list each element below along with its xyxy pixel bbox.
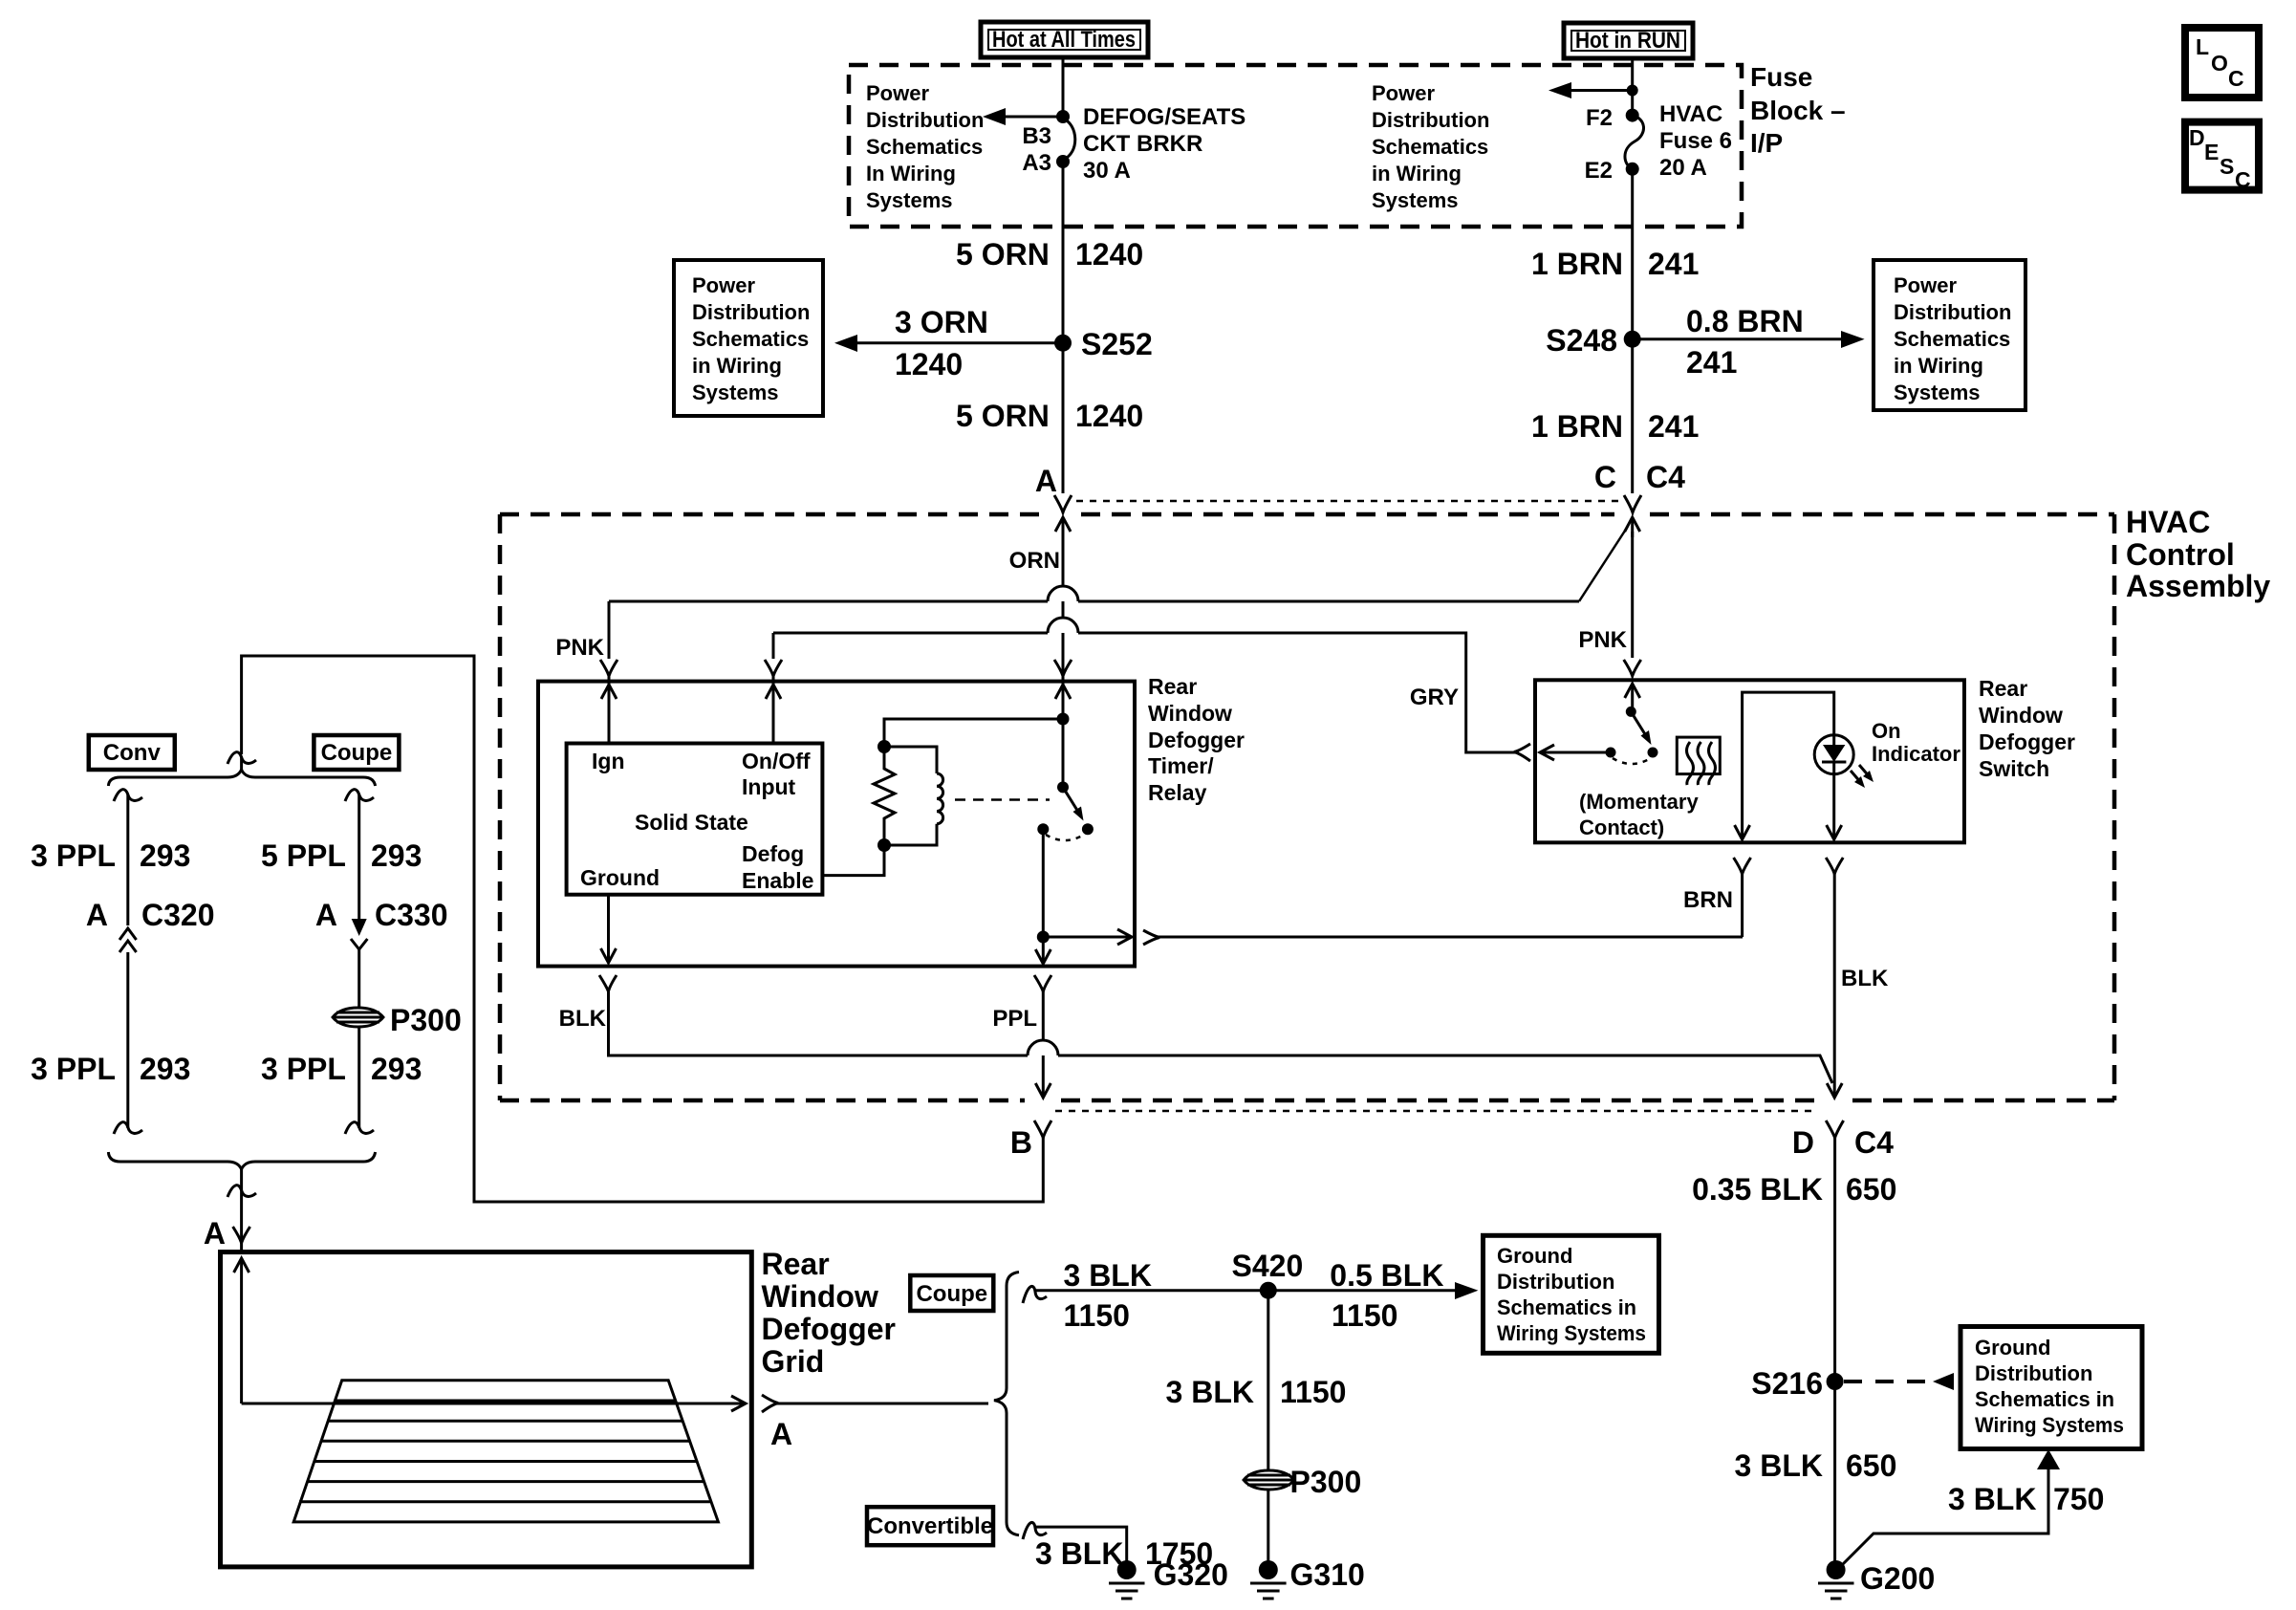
HVAC control assembly label: [2126, 505, 2270, 603]
switch connector chevron (BLK): [1826, 858, 1843, 874]
wire down to HVAC connector C: [1631, 339, 1634, 493]
svg-text:D: D: [1792, 1125, 1814, 1160]
svg-text:Distribution: Distribution: [866, 108, 984, 132]
relay switch arm: [1063, 787, 1084, 820]
box ground distribution schematics (S216): [1960, 1327, 2142, 1449]
wire from relay contact down: [1037, 829, 1050, 943]
wire LED to box bottom: [1832, 774, 1835, 838]
svg-text:Defogger: Defogger: [1148, 728, 1245, 752]
labels 3 BLK 1750: [1035, 1536, 1213, 1571]
svg-text:Window: Window: [1979, 703, 2063, 728]
labels 3 BLK 1150: [1064, 1258, 1152, 1333]
wire ORN down from A: [1062, 532, 1065, 717]
svg-text:Solid State: Solid State: [635, 810, 748, 835]
svg-text:O: O: [2211, 51, 2228, 76]
wire GRY horizontal (On/Off) with hop over ORN: [773, 618, 1519, 752]
relay actuation dashed link: [955, 798, 1050, 801]
wire 3 BLK 1750 to G320: [1035, 1527, 1127, 1562]
switch connector chevron (GRY): [1514, 744, 1530, 761]
brace (right-opening, coupe/convertible): [994, 1273, 1019, 1535]
svg-text:P300: P300: [1290, 1465, 1362, 1499]
grid label: [762, 1247, 896, 1379]
switch arm with arrow: [1631, 711, 1651, 745]
HVAC control assembly dashed box: [500, 512, 1045, 517]
grid box: [221, 1252, 752, 1567]
svg-text:in Wiring: in Wiring: [692, 354, 782, 378]
text power distribution (left, in fuse block): [866, 81, 984, 212]
svg-text:L: L: [2196, 34, 2209, 59]
LED light rays: [1851, 765, 1874, 788]
svg-text:Convertible: Convertible: [867, 1513, 993, 1539]
arrow PNK into switch box: [1625, 684, 1640, 711]
svg-text:A: A: [315, 898, 337, 932]
svg-text:On: On: [1872, 719, 1901, 743]
svg-text:D: D: [2189, 125, 2205, 150]
svg-text:Rear: Rear: [1979, 676, 2027, 701]
wire conv branch lower: [126, 952, 129, 1128]
svg-text:Ground: Ground: [1975, 1336, 2050, 1360]
svg-text:Indicator: Indicator: [1872, 742, 1960, 766]
svg-text:PNK: PNK: [1578, 627, 1627, 653]
svg-text:241: 241: [1686, 345, 1737, 380]
svg-text:BLK: BLK: [559, 1006, 607, 1032]
svg-text:Distribution: Distribution: [1497, 1270, 1614, 1294]
wire coupe branch lower: [357, 1027, 360, 1128]
svg-text:Hot at All Times: Hot at All Times: [992, 27, 1136, 53]
fuse block I/P dashed box: [849, 65, 1742, 227]
wire On/Off into box: [772, 633, 775, 743]
wire grid output to brace: [776, 1403, 988, 1405]
svg-text:293: 293: [140, 1052, 190, 1086]
svg-text:Distribution: Distribution: [1372, 108, 1489, 132]
wire ORN to relay junction: [1062, 672, 1065, 719]
svg-text:Fuse: Fuse: [1750, 62, 1812, 92]
svg-text:Conv: Conv: [103, 740, 162, 766]
switch contacts: [1606, 748, 1616, 758]
svg-text:Assembly: Assembly: [2126, 569, 2270, 603]
svg-text:G320: G320: [1154, 1557, 1228, 1592]
svg-text:0.8 BRN: 0.8 BRN: [1686, 304, 1804, 338]
box power distribution schematics (left): [674, 260, 823, 416]
switch connector chevron (BRN): [1734, 858, 1751, 874]
svg-text:G310: G310: [1290, 1557, 1365, 1592]
wire: battery feed down from Hot at All Times: [1062, 57, 1065, 117]
label (Momentary Contact): [1579, 790, 1699, 839]
arrow On/Off (into timer box): [766, 685, 781, 699]
svg-text:E: E: [2204, 140, 2219, 164]
svg-text:3 PPL: 3 PPL: [31, 838, 116, 873]
svg-text:Coupe: Coupe: [321, 740, 393, 766]
svg-text:Schematics: Schematics: [1894, 327, 2010, 351]
coupe ground branch squiggle: [1023, 1286, 1047, 1303]
text power distribution (right, in fuse block): [1372, 81, 1489, 212]
LED on indicator: [1814, 735, 1853, 774]
svg-text:S248: S248: [1546, 323, 1617, 358]
svg-text:1240: 1240: [1075, 399, 1143, 433]
wire PPL down to connector B: [1035, 991, 1051, 1098]
switch label: [1979, 676, 2075, 781]
svg-text:PNK: PNK: [555, 635, 604, 661]
connector C4 fine dashed line (bottom, B to D): [1055, 1110, 1814, 1113]
svg-text:C4: C4: [1646, 460, 1685, 494]
grid element trapezoid: [293, 1381, 718, 1522]
svg-text:C: C: [2235, 167, 2251, 192]
svg-text:241: 241: [1648, 247, 1699, 281]
svg-text:Hot in RUN: Hot in RUN: [1575, 28, 1680, 54]
svg-text:On/Off: On/Off: [742, 749, 811, 773]
svg-text:Coupe: Coupe: [916, 1281, 987, 1307]
connector C320 (double chevron): [86, 898, 215, 952]
connector C4 fine dashed line (top, A to C): [1076, 500, 1619, 503]
wire ground from solid state down: [601, 895, 617, 963]
wire below brace: [240, 1169, 243, 1251]
relay switch pivot: [1057, 719, 1069, 793]
wire BLK from switch down to D: [1827, 872, 1842, 1098]
wire BRN down and left: [1741, 874, 1744, 937]
svg-text:Power: Power: [1894, 273, 1957, 297]
arrow BLK down inside switch box: [1827, 825, 1842, 839]
wire 1 BRN 241 segment: [1531, 247, 1699, 281]
connector C arrow (into HVAC): [1625, 517, 1640, 537]
svg-text:Window: Window: [1148, 701, 1232, 726]
svg-text:Schematics: Schematics: [1372, 135, 1488, 159]
splice S420: [1232, 1249, 1304, 1299]
svg-text:Schematics: Schematics: [692, 327, 809, 351]
svg-text:5 PPL: 5 PPL: [261, 838, 346, 873]
svg-text:in Wiring: in Wiring: [1372, 162, 1462, 185]
switch connector chevron (PNK): [1624, 660, 1641, 676]
svg-text:Ign: Ign: [592, 749, 625, 773]
svg-text:Distribution: Distribution: [1894, 300, 2011, 324]
svg-text:C: C: [2228, 66, 2244, 91]
svg-text:3 BLK: 3 BLK: [1735, 1448, 1823, 1483]
fuse HVAC Fuse 6 20A: [1625, 109, 1644, 176]
svg-text:5 ORN: 5 ORN: [956, 237, 1050, 272]
relay contacts: [1037, 823, 1049, 835]
svg-text:Rear: Rear: [762, 1247, 830, 1281]
svg-text:Wiring Systems: Wiring Systems: [1975, 1413, 2124, 1437]
svg-text:0.35 BLK: 0.35 BLK: [1692, 1172, 1823, 1207]
labels 3 PPL 293 (coupe lower): [261, 1052, 422, 1086]
svg-text:Contact): Contact): [1579, 816, 1664, 839]
svg-text:Distribution: Distribution: [1975, 1361, 2092, 1385]
splice S252 arrow 3 ORN 1240: [834, 305, 1063, 381]
coupe branch squiggle: [345, 790, 374, 801]
svg-text:BRN: BRN: [1683, 887, 1733, 913]
svg-text:Enable: Enable: [742, 868, 813, 893]
svg-text:3 PPL: 3 PPL: [261, 1052, 346, 1086]
svg-text:Power: Power: [692, 273, 755, 297]
svg-text:Defog: Defog: [742, 841, 804, 866]
wire PNK horizontal (Ign feed) with hop over ORN: [609, 528, 1627, 601]
arrow Ign (into timer box): [601, 685, 617, 699]
circuit breaker DEFOG/SEATS CKT BRKR 30A: [1056, 110, 1075, 168]
wire relay output to right (BRN): [1043, 929, 1743, 945]
label box Conv: [89, 735, 175, 770]
brace (top, branches to Conv and Coupe): [108, 770, 375, 786]
wire from common contact to GRY (arrow out left): [1540, 745, 1611, 760]
label On Indicator: [1872, 719, 1960, 766]
label box Convertible: [867, 1507, 993, 1545]
svg-text:G200: G200: [1860, 1561, 1935, 1596]
svg-text:Systems: Systems: [1372, 188, 1459, 212]
svg-text:Distribution: Distribution: [692, 300, 810, 324]
svg-text:5 ORN: 5 ORN: [956, 399, 1050, 433]
label 5 ORN 1240 (upper): [956, 237, 1143, 272]
svg-text:3 PPL: 3 PPL: [31, 1052, 116, 1086]
svg-text:P300: P300: [390, 1003, 462, 1037]
wire coupe branch upper: [357, 794, 360, 923]
wire PPL down from contact junction: [1035, 937, 1051, 964]
svg-text:1 BRN: 1 BRN: [1531, 409, 1623, 444]
brace (bottom, joins branches): [108, 1152, 375, 1169]
ground G310: [1250, 1557, 1365, 1599]
svg-text:ORN: ORN: [1009, 548, 1060, 574]
svg-text:S420: S420: [1232, 1249, 1304, 1283]
svg-text:Schematics in: Schematics in: [1497, 1295, 1636, 1319]
label 1 BRN 241 (lower): [1531, 409, 1699, 444]
wire 5 ORN 1240 segment: [1062, 162, 1065, 343]
connector B chevron: [1034, 1120, 1051, 1138]
relay feed wire (top horizontal): [884, 713, 1070, 748]
svg-text:Systems: Systems: [692, 381, 779, 404]
inline splice squiggle (grid feed): [227, 752, 256, 764]
fuse block label: [1750, 62, 1846, 158]
svg-text:3 BLK: 3 BLK: [1948, 1482, 2036, 1516]
switch internal loop wire: [1743, 692, 1834, 838]
svg-text:Power: Power: [1372, 81, 1435, 105]
wire S420 down to P300: [1267, 1291, 1269, 1469]
timer/relay label: [1148, 674, 1245, 805]
module connector chevron (Ground out): [599, 975, 617, 991]
conv branch bottom squiggle: [114, 1122, 142, 1134]
svg-text:293: 293: [140, 838, 190, 873]
labels 3 BLK 650: [1735, 1448, 1897, 1483]
svg-text:I/P: I/P: [1750, 128, 1783, 158]
svg-text:A: A: [1035, 464, 1057, 498]
label box Coupe (bottom): [910, 1275, 993, 1311]
svg-text:Fuse 6: Fuse 6: [1659, 128, 1732, 154]
splice S216: [1751, 1366, 1843, 1401]
svg-text:Power: Power: [866, 81, 929, 105]
relay coil/resistor top junction: [877, 740, 891, 753]
svg-text:Schematics in: Schematics in: [1975, 1387, 2114, 1411]
svg-text:PPL: PPL: [992, 1006, 1037, 1032]
svg-text:1240: 1240: [895, 347, 963, 381]
rear window defogger switch box: [1535, 680, 1964, 842]
box power distribution schematics (right): [1874, 260, 2025, 410]
svg-text:241: 241: [1648, 409, 1699, 444]
svg-text:HVAC: HVAC: [1659, 101, 1722, 127]
wire down to HVAC connector A: [1062, 343, 1065, 493]
box ground distribution schematics (S420): [1484, 1235, 1659, 1353]
labels 0.35 BLK 650: [1692, 1172, 1896, 1207]
arrow up inside grid box: [234, 1258, 249, 1403]
ground G200: [1818, 1560, 1935, 1599]
svg-text:B3: B3: [1022, 123, 1051, 149]
svg-text:750: 750: [2053, 1482, 2104, 1516]
svg-text:Schematics: Schematics: [866, 135, 983, 159]
svg-text:Relay: Relay: [1148, 780, 1207, 805]
svg-text:650: 650: [1846, 1448, 1896, 1483]
svg-text:C320: C320: [141, 898, 215, 932]
rear window defogger timer/relay box: [538, 682, 1135, 967]
svg-text:Timer/: Timer/: [1148, 753, 1214, 778]
svg-text:3 BLK: 3 BLK: [1035, 1536, 1123, 1571]
labels 3 PPL 293 (conv lower): [31, 1052, 190, 1086]
wire P300 to G310: [1267, 1490, 1269, 1562]
wire BLK (ground) horizontal with hop over PPL: [609, 991, 1833, 1083]
breaker value labels: [1083, 104, 1245, 184]
svg-text:S252: S252: [1081, 327, 1153, 361]
svg-text:BLK: BLK: [1841, 966, 1889, 991]
svg-text:1150: 1150: [1280, 1375, 1346, 1409]
wire coupe branch middle: [357, 949, 360, 1008]
wire PNK down from C to switch: [1631, 532, 1634, 658]
DESC box: [2185, 122, 2259, 192]
wire to brace: [240, 757, 243, 771]
label box "Hot in RUN": [1564, 23, 1693, 58]
svg-text:A: A: [204, 1216, 226, 1251]
labels 5 PPL 293 (coupe upper): [261, 838, 422, 873]
resistor (relay suppression): [874, 747, 895, 845]
svg-text:20 A: 20 A: [1659, 155, 1707, 181]
svg-text:1 BRN: 1 BRN: [1531, 247, 1623, 281]
svg-text:293: 293: [371, 838, 422, 873]
svg-text:Block –: Block –: [1750, 96, 1846, 125]
wire 0.35 BLK 650 from D: [1833, 1138, 1836, 1561]
svg-text:Control: Control: [2126, 537, 2235, 572]
conv branch squiggle: [114, 790, 142, 801]
svg-text:CKT BRKR: CKT BRKR: [1083, 131, 1202, 157]
svg-text:Grid: Grid: [762, 1344, 825, 1379]
svg-text:3 BLK: 3 BLK: [1064, 1258, 1152, 1293]
svg-text:S216: S216: [1751, 1366, 1823, 1401]
svg-text:C4: C4: [1854, 1125, 1894, 1160]
svg-text:HVAC: HVAC: [2126, 505, 2210, 539]
relay coil: [884, 747, 943, 845]
arrow to power distribution (right): [1549, 82, 1638, 98]
connector A chevron: [1054, 495, 1072, 512]
svg-text:293: 293: [371, 1052, 422, 1086]
connector C chevron: [1624, 495, 1641, 512]
svg-text:1240: 1240: [1075, 237, 1143, 272]
svg-text:Defogger: Defogger: [1979, 729, 2075, 754]
wire below fuse: [1631, 169, 1634, 339]
coupe branch bottom squiggle: [345, 1122, 374, 1134]
labels 3 PPL 293 (conv upper): [31, 838, 190, 873]
inline splice squiggle (below brace): [227, 1186, 256, 1197]
grommet P300 (bottom): [1244, 1465, 1361, 1499]
module connector chevron (On/Off): [765, 660, 782, 676]
labels 3 BLK 750: [1948, 1482, 2104, 1516]
labels 3 BLK 1150 (vertical run): [1166, 1375, 1347, 1409]
convertible ground branch squiggle: [1023, 1522, 1047, 1539]
svg-text:in Wiring: in Wiring: [1894, 354, 1983, 378]
svg-text:Input: Input: [742, 774, 796, 799]
svg-text:0.5 BLK: 0.5 BLK: [1330, 1258, 1443, 1293]
switch pivot dot: [1626, 707, 1636, 717]
wire PPL from B down, left, up and to grid branch: [242, 656, 1044, 1202]
module connector chevron (PPL out): [1034, 975, 1051, 991]
fuse value labels: [1659, 101, 1732, 181]
svg-text:Systems: Systems: [866, 188, 953, 212]
splice S248: [1546, 323, 1640, 358]
grid connector chevron (output): [762, 1395, 778, 1412]
svg-text:1150: 1150: [1064, 1298, 1130, 1333]
svg-text:A: A: [770, 1417, 792, 1451]
label box Coupe: [314, 735, 399, 770]
label 5 ORN 1240 (lower): [956, 399, 1143, 433]
connector A chevron (grid): [233, 1227, 250, 1243]
relay throw dotted arc: [1046, 835, 1084, 840]
svg-text:3 BLK: 3 BLK: [1166, 1375, 1254, 1409]
solid state box: [567, 744, 823, 895]
svg-text:30 A: 30 A: [1083, 158, 1131, 184]
arrow BRN down inside switch box: [1735, 825, 1750, 839]
arrow to power distribution (left): [983, 108, 1063, 125]
svg-text:Rear: Rear: [1148, 674, 1197, 699]
svg-text:In Wiring: In Wiring: [866, 162, 956, 185]
svg-text:Switch: Switch: [1979, 756, 2049, 781]
connector C330 (arrow + chevron): [315, 898, 448, 949]
ground G320: [1109, 1557, 1228, 1599]
switch throw dotted arc: [1613, 758, 1651, 764]
wire 3 BLK 1150 to S420: [1035, 1289, 1268, 1292]
svg-text:3 ORN: 3 ORN: [895, 305, 988, 339]
svg-text:650: 650: [1846, 1172, 1896, 1207]
svg-text:A3: A3: [1022, 150, 1051, 176]
svg-text:Defogger: Defogger: [762, 1312, 896, 1346]
coil bottom junction: [877, 838, 891, 852]
svg-text:(Momentary: (Momentary: [1579, 790, 1699, 814]
module connector chevron (Ign): [600, 660, 617, 676]
svg-text:Window: Window: [762, 1279, 878, 1314]
label box "Hot at All Times": [981, 22, 1148, 57]
grid output wire with arrow: [242, 1396, 746, 1411]
splice S252: [1054, 327, 1153, 361]
defogger heater icon: [1677, 737, 1720, 785]
svg-text:B: B: [1010, 1125, 1032, 1160]
svg-text:Ground: Ground: [1497, 1244, 1572, 1268]
svg-text:A: A: [86, 898, 108, 932]
wire 3 BLK 750: [1838, 1469, 2048, 1569]
dashed arrow S216 to ground distribution: [1844, 1373, 1954, 1390]
svg-text:Ground: Ground: [580, 865, 660, 890]
svg-text:F2: F2: [1586, 105, 1613, 131]
svg-text:Wiring Systems: Wiring Systems: [1497, 1321, 1646, 1345]
wire Ign into box: [608, 601, 611, 743]
svg-text:C330: C330: [375, 898, 448, 932]
grommet P300 (left): [333, 1003, 462, 1037]
LOC box: [2185, 28, 2259, 98]
wire conv branch upper: [126, 794, 129, 925]
wire: run feed down from Hot in RUN: [1631, 58, 1634, 116]
wire defog enable to coil: [822, 845, 884, 876]
svg-text:C: C: [1594, 460, 1616, 494]
svg-text:Systems: Systems: [1894, 381, 1981, 404]
svg-text:DEFOG/SEATS: DEFOG/SEATS: [1083, 104, 1245, 130]
svg-text:S: S: [2220, 154, 2234, 179]
connector A arrow (into HVAC): [1055, 517, 1071, 537]
arrow ORN (into timer box): [1055, 685, 1071, 699]
connector D chevron: [1826, 1120, 1843, 1138]
arrow 0.5 BLK 1150 to ground distribution: [1268, 1258, 1479, 1333]
svg-text:GRY: GRY: [1410, 685, 1459, 710]
arrow up into ground distribution box: [2037, 1449, 2060, 1469]
arrow 0.8 BRN 241 to power distribution (right): [1633, 304, 1865, 380]
svg-text:E2: E2: [1585, 158, 1613, 184]
